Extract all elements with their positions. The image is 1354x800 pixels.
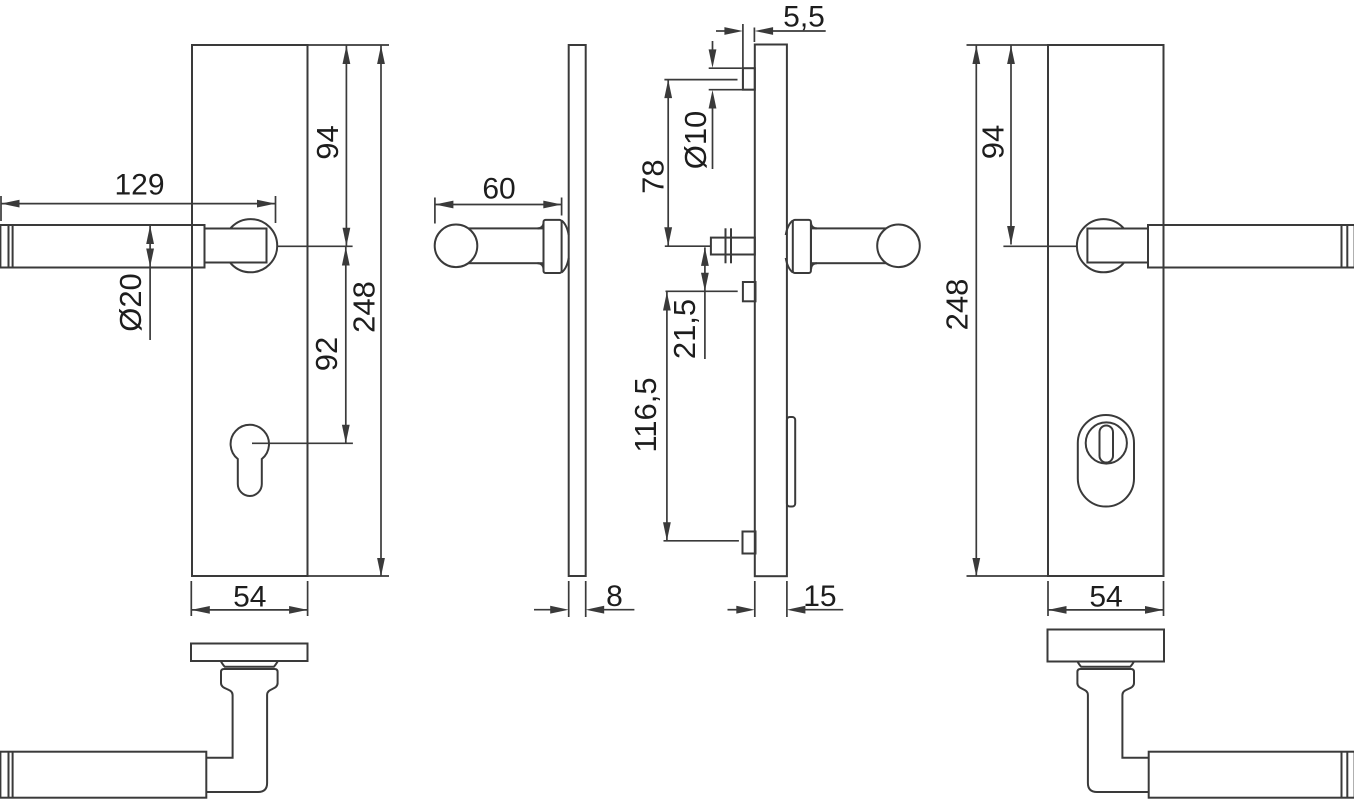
dim 8 ext [569, 581, 586, 617]
backplate side view (8mm) [569, 45, 586, 576]
dim 116,5 ext [664, 540, 739, 542]
bottom view grip left [0, 752, 206, 798]
top fixing pin view3 [743, 68, 755, 90]
bottom view stem right side right [1122, 683, 1148, 758]
svg-text:116,5: 116,5 [628, 377, 663, 452]
lever grip end cap view1 [9, 225, 13, 268]
dim 78 text [636, 159, 671, 193]
backplate view1 (long plate 54x248) [192, 45, 308, 576]
cylinder cover oval view4 [1078, 415, 1134, 507]
dim 129 text [114, 168, 164, 201]
leader keyhole left [252, 442, 353, 444]
dim 129 line [1, 200, 276, 208]
dim 54 left ext [191, 581, 307, 616]
svg-text:129: 129 [114, 168, 164, 201]
dim 92 text [309, 337, 344, 371]
svg-text:Ø10: Ø10 [678, 111, 713, 170]
svg-text:94: 94 [310, 125, 345, 159]
dim 129 ext right [275, 196, 277, 223]
dim 116,5 text [628, 377, 663, 452]
svg-text:5,5: 5,5 [783, 0, 825, 33]
dim 248 left line [377, 46, 385, 577]
backplate view4 (security plate) [1048, 45, 1164, 576]
dim 248 left text [347, 281, 382, 333]
svg-text:8: 8 [606, 580, 623, 613]
bottom view grip cap left [9, 752, 13, 798]
collar curves view3 [786, 221, 793, 273]
cylinder housing bump view3 [787, 417, 795, 507]
svg-text:78: 78 [636, 159, 671, 193]
dim 92 line [342, 246, 350, 443]
dim O10 arrows [709, 41, 717, 169]
svg-text:21,5: 21,5 [667, 299, 702, 359]
bottom view grip right [1149, 752, 1354, 798]
dim 5,5 text [783, 0, 825, 33]
dim 21,5 ext [666, 290, 738, 292]
dim 54 right text [1089, 580, 1122, 613]
dim 15 arrows [728, 606, 844, 614]
svg-text:60: 60 [482, 172, 515, 205]
lower fixing pin view3 [743, 282, 756, 301]
bottom fixing pin view3 [743, 532, 756, 554]
cylinder screw slot view4 [1100, 426, 1114, 463]
dim 5,5 ext [743, 24, 755, 91]
svg-text:248: 248 [347, 281, 382, 333]
lever ball side view2 [435, 225, 478, 268]
dim 54 left text [233, 580, 266, 613]
dim O20 arrows [146, 226, 154, 341]
dim 5,5 arrows [716, 27, 826, 35]
lever flange side view2 [544, 220, 562, 273]
leader handle centre left [277, 245, 352, 247]
bottom view plate slab right [1048, 630, 1165, 662]
dim 54 left line [191, 606, 307, 614]
svg-text:Ø20: Ø20 [113, 273, 148, 332]
dim 94 left line [343, 46, 351, 247]
bottom view flange block right [1077, 669, 1134, 684]
dim 94 right line [1007, 46, 1015, 245]
lever neck view4 [1087, 229, 1154, 263]
dim 94 right text [976, 125, 1011, 159]
svg-text:54: 54 [1089, 580, 1122, 613]
ext plate top left [308, 44, 390, 46]
svg-text:94: 94 [976, 125, 1011, 159]
dim 94 left text [310, 125, 345, 159]
bottom view rose right [1077, 662, 1134, 667]
dim 248 right line [972, 46, 980, 577]
lever grip view1 [0, 225, 204, 268]
lever grip end cap view4 [1342, 225, 1348, 268]
neck-flange fillets view3 [811, 223, 817, 270]
dim 116,5 line [663, 291, 671, 541]
dim 21,5 line [701, 247, 709, 359]
lever grip view4 [1148, 225, 1354, 268]
bottom view rose left [221, 662, 278, 667]
bottom view flange block left [221, 669, 278, 684]
spindle rod view3 [711, 238, 755, 255]
dim 248 right text [940, 279, 975, 331]
bottom view grip cap right [1342, 752, 1348, 798]
dim 8 text [606, 580, 623, 613]
lever neck side view2 [456, 228, 544, 263]
dim 78 ext [664, 80, 737, 247]
svg-text:248: 248 [940, 279, 975, 331]
ext plate bottom right [967, 575, 1049, 577]
ext plate top right [967, 44, 1049, 46]
dim 78 line [664, 80, 672, 246]
dim 60 text [482, 172, 515, 205]
lever rose circle view1 [224, 219, 277, 272]
dim O10 text [678, 111, 713, 170]
bottom view stem right side left [207, 683, 278, 792]
dim 8 arrows [534, 606, 634, 614]
lever neck side view3 [811, 228, 899, 263]
ext plate bottom left [308, 575, 390, 577]
svg-text:15: 15 [803, 580, 836, 613]
dim 15 text [803, 580, 836, 613]
lever flange side view3 [793, 220, 811, 273]
dim 54 right line [1048, 606, 1164, 614]
lever ball side view3 [877, 225, 920, 268]
lever rose circle view4 [1077, 219, 1130, 272]
dim 60 line [435, 201, 562, 209]
lever neck view1 [200, 229, 267, 263]
neck-flange fillets view2 [538, 223, 544, 270]
collar curves view2 [562, 221, 569, 273]
dim 15 ext [755, 581, 787, 617]
dim O10 ext [709, 68, 754, 90]
svg-text:92: 92 [309, 337, 344, 371]
svg-text:54: 54 [233, 580, 266, 613]
bottom view plate slab left [191, 644, 308, 662]
backplate side view (15mm) [755, 45, 787, 577]
bottom view stem left side right [1077, 683, 1148, 792]
cylinder core circle view4 [1086, 422, 1127, 463]
dim 129 ext left [0, 196, 2, 221]
leader handle centre right [1003, 245, 1077, 247]
dim 54 right ext [1048, 581, 1164, 616]
spindle washer view3 [726, 228, 732, 263]
dim 21,5 text [667, 299, 702, 359]
dim 60 ext [435, 198, 562, 224]
dim O20 text [113, 273, 148, 332]
bottom view stem left side left [207, 683, 233, 758]
PZ keyhole cutout view1 [231, 425, 269, 496]
